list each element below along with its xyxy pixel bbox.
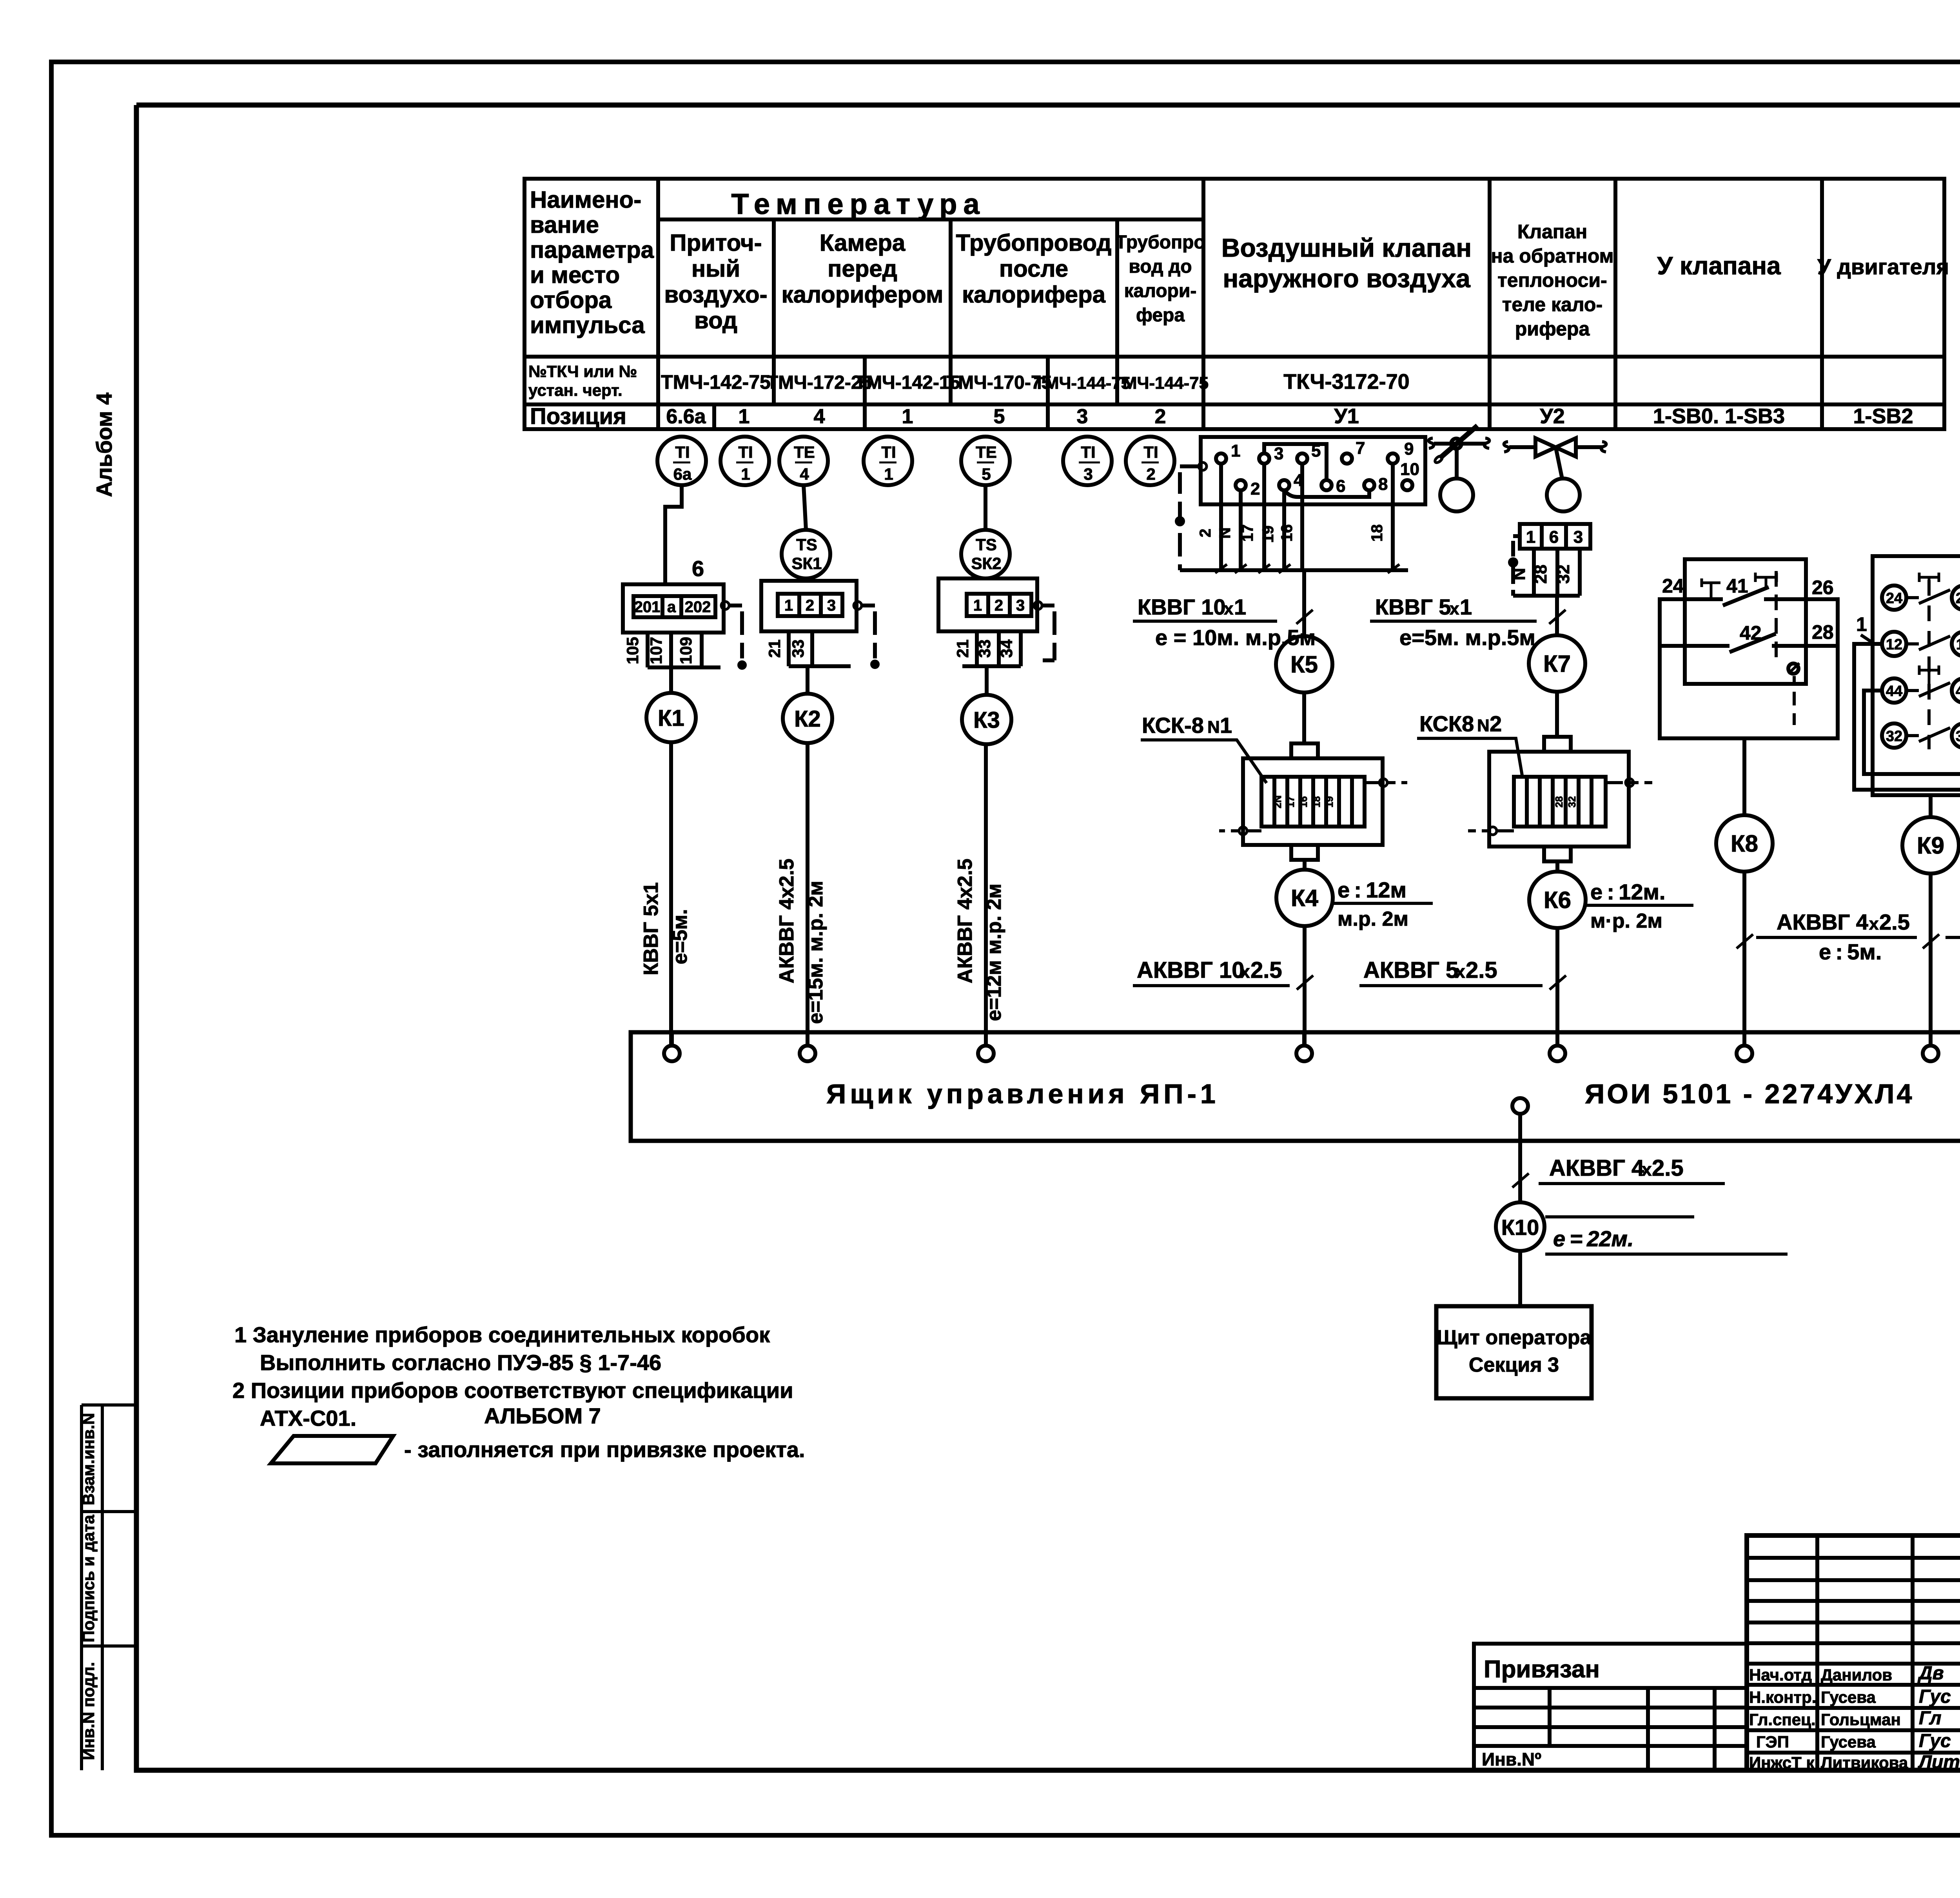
outer wiring loop [1660,599,1838,738]
svg-text:Трубопровод: Трубопровод [956,230,1112,256]
terminal pair 32-31 [1882,723,1906,748]
svg-text:21: 21 [953,640,972,658]
box 6 pin numbers 105 107 109 [623,637,695,664]
svg-text:1: 1 [884,465,893,483]
sensor TI-1b [864,437,912,485]
cable crossing tick [1296,610,1313,624]
svg-text:19: 19 [1323,796,1335,808]
svg-text:Гусева: Гусева [1821,1688,1876,1706]
svg-text:28: 28 [1812,621,1834,643]
cable tick K10 [1512,1173,1529,1187]
svg-text:КВВГ 10: КВВГ 10 [1138,595,1226,619]
box SK2 pin wires [962,631,1021,666]
svg-text:м·р. 2м: м·р. 2м [1590,910,1662,932]
wire K6 to YaP-1 [1555,928,1559,1046]
relay circle K9 [1902,817,1959,874]
internal wire pin4 to pin8 [1284,490,1369,497]
svg-text:2: 2 [1155,405,1166,428]
svg-text:ТМЧ-144-75: ТМЧ-144-75 [1112,373,1209,393]
svg-text:2.5: 2.5 [1652,1155,1684,1181]
svg-text:Взам.инв.N: Взам.инв.N [79,1413,98,1505]
svg-text:ТI: ТI [738,443,753,461]
svg-text:Гус: Гус [1919,1731,1951,1751]
svg-text:е=5м. м.р.5м: е=5м. м.р.5м [1399,625,1535,650]
box SK1 pin numbers 21 33 [765,640,807,658]
svg-text:3: 3 [1573,528,1583,547]
svg-text:3: 3 [1274,444,1283,463]
svg-text:Гусева: Гусева [1821,1733,1876,1751]
box 6 shield circle and dashes [721,602,729,609]
KSK-8n1 shield top right [1365,781,1407,784]
KSK8n2 shield bottom left [1468,829,1514,832]
svg-text:У клапана: У клапана [1657,252,1781,280]
svg-text:6а: 6а [673,465,692,483]
cable crossing tick [1549,610,1566,624]
svg-text:х: х [1642,1159,1652,1180]
YaP-1 box outline [631,1032,1960,1141]
table grid [524,179,1944,429]
wire to K9 [1929,795,1933,817]
wire bus to K1 [669,667,673,693]
svg-text:ТS: ТS [976,535,997,554]
sensor TI-2 [1126,437,1174,485]
pin strips below [1534,549,1580,596]
svg-text:32: 32 [1554,565,1573,584]
svg-text:АКВВГ 4: АКВВГ 4 [1549,1155,1644,1181]
svg-text:КВВГ 5: КВВГ 5 [1375,595,1451,619]
svg-text:К7: К7 [1543,651,1571,677]
svg-text:8: 8 [1378,475,1388,494]
svg-text:х: х [1224,599,1234,618]
svg-text:фера: фера [1136,305,1185,326]
relay circle K1 [646,693,696,742]
svg-text:и место: и место [530,262,620,288]
wire to K3 [985,666,989,695]
svg-text:Лит: Лит [1918,1752,1960,1773]
wire stubs from pins down [1221,464,1393,568]
svg-text:16: 16 [1298,796,1309,808]
svg-text:калори-: калори- [1124,281,1197,301]
svg-text:К3: К3 [973,707,1000,733]
svg-text:SК2: SК2 [971,554,1001,573]
svg-text:Литвикова: Литвикова [1821,1753,1908,1772]
svg-text:АКВВГ 4х2.5: АКВВГ 4х2.5 [954,859,976,983]
box SK2 cells 1 2 3 [967,594,1031,616]
box SK2 cell labels [973,597,1025,614]
svg-text:У двигателя: У двигателя [1817,254,1949,279]
damper valve symbol [1429,426,1490,511]
contact 42 [1685,634,1806,652]
svg-text:1: 1 [784,597,793,614]
svg-text:наружного воздуха: наружного воздуха [1223,264,1471,293]
svg-text:Приточ-: Приточ- [670,230,762,256]
svg-text:У2: У2 [1540,404,1565,428]
svg-text:1: 1 [1856,613,1867,635]
relay circle K3 [962,695,1011,744]
svg-text:4: 4 [814,405,825,428]
svg-text:Щит оператора: Щит оператора [1437,1326,1592,1349]
svg-text:№ТКЧ или №: №ТКЧ или № [528,362,637,381]
svg-text:Трубопро: Трубопро [1115,232,1205,253]
svg-text:е : 5м.: е : 5м. [1819,939,1882,964]
svg-text:7: 7 [1356,439,1365,458]
pin circles bottom row 2 4 6 8 10 [1236,480,1246,490]
svg-text:вание: вание [530,212,599,238]
svg-text:23: 23 [1956,590,1960,607]
svg-text:2: 2 [1250,479,1260,499]
svg-text:1: 1 [1231,441,1240,460]
svg-text:Температура: Температура [731,188,985,220]
operator panel box [1436,1306,1592,1398]
svg-text:К4: К4 [1291,885,1319,911]
svg-text:У1: У1 [1334,404,1359,428]
wire KSK8n2 to K6 [1555,861,1559,872]
svg-text:Секция 3: Секция 3 [1469,1354,1559,1376]
junction box 6 outline [623,584,724,633]
sensor TI-6a [657,437,706,485]
subdividers tkch row [865,357,1048,404]
svg-text:Привязан: Привязан [1484,1656,1600,1683]
svg-text:41: 41 [1726,575,1748,597]
signature squiggles [1917,1663,1960,1773]
pin number labels top [1231,439,1419,499]
switch box pin labels [1662,575,1834,644]
cable tick [1297,975,1313,990]
terminal stubs and circles on top edge [672,1032,1931,1046]
svg-text:х: х [1455,961,1465,982]
main cable down from bus [1302,570,1306,636]
svg-text:44: 44 [1886,683,1902,700]
KSK-8n1 shield bottom left [1219,829,1261,832]
svg-text:2: 2 [1490,711,1502,736]
svg-text:5: 5 [982,465,991,483]
main cable down to K7 [1555,596,1559,635]
svg-text:К9: К9 [1917,832,1944,859]
svg-text:КСК-8: КСК-8 [1142,713,1204,738]
box 6 terminal cells 201 a 202 [633,596,715,617]
svg-text:105: 105 [623,637,642,664]
svg-text:ЯОИ 5101 - 2274УХЛ4: ЯОИ 5101 - 2274УХЛ4 [1585,1079,1914,1109]
svg-text:3: 3 [1016,597,1025,614]
svg-text:АЛЬБОМ 7: АЛЬБОМ 7 [484,1403,601,1428]
svg-text:5: 5 [1311,441,1321,460]
KSK-8n1 strip numbers [1272,795,1335,808]
box 163 cell labels [1526,528,1583,547]
wire K9 to YaP-1 [1929,874,1933,1046]
KSK8n2 strip numbers [1553,796,1578,808]
svg-text:31: 31 [1956,728,1960,745]
privyazan box outline [1474,1644,1747,1770]
junction box SK2 outline [938,578,1037,631]
svg-text:ТМЧ-142-75: ТМЧ-142-75 [661,371,771,393]
svg-text:26: 26 [1812,576,1834,598]
svg-text:N: N [1477,716,1490,735]
terminal box U1 outline [1201,437,1425,504]
sensor TE-4 [779,437,828,485]
svg-text:Альбом 4: Альбом 4 [92,393,116,497]
K10 length label e=22m [1545,1215,1694,1218]
box SK2 shield [1034,602,1042,609]
svg-text:ТКЧ-3172-70: ТКЧ-3172-70 [1283,370,1409,393]
svg-text:1: 1 [1234,595,1246,619]
gathering bus [1180,568,1408,572]
svg-text:Наимено-: Наимено- [530,187,641,213]
svg-text:10: 10 [1400,460,1419,479]
wire to K8 [1742,738,1746,815]
svg-text:2: 2 [995,597,1003,614]
svg-text:К1: К1 [658,705,684,731]
wire K2 to YaP-1 terminal [806,743,809,1046]
svg-text:Позиция: Позиция [530,404,626,429]
svg-text:е : 12м.: е : 12м. [1590,879,1666,904]
junction box SK1 outline [761,581,857,631]
svg-text:Гольцман: Гольцман [1821,1710,1901,1729]
svg-text:21: 21 [765,640,784,658]
svg-text:33: 33 [975,640,994,658]
svg-text:Гл.спец.: Гл.спец. [1749,1710,1816,1729]
contact 41 [1685,587,1806,605]
wire K10 terminal down through box [1518,1114,1522,1202]
svg-text:АКВВГ 5: АКВВГ 5 [1363,957,1458,983]
connector KSK-8n1 [1291,743,1318,758]
box 163 pin numbers N 28 32 [1510,565,1573,584]
KSK8n2 shield top right [1606,781,1652,784]
sensor TS SK2 [961,530,1010,578]
wire K7 to KSK8n2 [1555,692,1559,737]
inner wiring loop 3 [1864,684,1960,774]
svg-text:ТЕ: ТЕ [794,443,815,461]
svg-text:ТЕ: ТЕ [976,443,997,461]
svg-text:4: 4 [800,465,809,483]
svg-text:17: 17 [1239,524,1256,542]
svg-text:устан. черт.: устан. черт. [528,381,622,399]
mech link dashed [1927,580,1931,749]
svg-text:Камера: Камера [820,230,906,256]
svg-text:е : 12м: е : 12м [1338,877,1406,902]
svg-text:К10: К10 [1501,1215,1539,1240]
svg-text:1: 1 [1526,528,1535,547]
terminal pair 12-11 [1882,632,1906,656]
svg-text:воздухо-: воздухо- [664,281,767,308]
leader corner for wire 1 [1861,635,1875,644]
svg-text:АКВВГ 4: АКВВГ 4 [1777,910,1868,934]
svg-text:5: 5 [994,405,1005,428]
svg-text:на обратном: на обратном [1491,245,1613,267]
relay circle K2 [783,694,832,743]
wire KSK-8n1 to K4 [1303,860,1307,870]
svg-text:1: 1 [902,405,913,428]
svg-text:107: 107 [647,637,665,664]
svg-text:ный: ный [691,256,740,282]
left signature sub-table columns [1817,1535,1960,1770]
svg-text:ТI: ТI [675,443,690,461]
svg-text:11: 11 [1956,636,1960,653]
svg-text:202: 202 [685,598,711,616]
box 163 outline [1520,524,1590,549]
svg-text:Инв.Nº: Инв.Nº [1482,1749,1541,1769]
internal wire pin3 to pin6 [1264,444,1327,480]
svg-text:17: 17 [1285,796,1296,808]
svg-text:параметра: параметра [530,237,654,263]
svg-text:2.5: 2.5 [1250,957,1282,983]
pin circles top row 1 3 5 7 9 [1216,453,1226,464]
svg-text:43: 43 [1956,683,1960,700]
signature rows labels [1749,1666,1908,1772]
svg-text:Выполнить согласно ПУЭ-85 § 1-: Выполнить согласно ПУЭ-85 § 1-7-46 [260,1350,661,1375]
wire numbers under box [1197,524,1386,543]
sensor TE-5 [961,437,1010,485]
svg-text:КВВГ 5х1: КВВГ 5х1 [640,882,662,975]
box SK2 pin numbers 21 33 34 [953,639,1016,658]
wire K10 to operator panel [1518,1251,1522,1306]
svg-text:К5: К5 [1290,651,1318,678]
box SK1 pin wires [789,631,851,666]
svg-text:109: 109 [677,637,695,664]
shield dash-dot left [1513,536,1520,596]
svg-text:24: 24 [1662,575,1684,597]
relay circle K10 [1496,1202,1544,1251]
switch box outline [1685,559,1806,684]
svg-text:1-SВ0. 1-SВ3: 1-SВ0. 1-SВ3 [1653,404,1785,428]
svg-text:32: 32 [1566,796,1578,808]
relay circle K5 [1276,636,1332,692]
svg-text:Гус: Гус [1919,1686,1951,1707]
svg-text:ИнжсТ к: ИнжсТ к [1749,1753,1815,1772]
svg-text:N: N [1510,568,1529,580]
svg-text:28: 28 [1531,565,1550,584]
relay circle K8 [1716,815,1773,872]
svg-text:Данилов: Данилов [1821,1666,1892,1684]
svg-text:1: 1 [739,405,750,428]
wire K1 to YaP-1 terminal [669,742,673,1046]
box SK1 cells 1 2 3 [778,594,842,616]
svg-text:после: после [999,256,1068,282]
svg-text:е=12м м.р. 2м: е=12м м.р. 2м [983,884,1005,1021]
fill-in parallelogram [271,1436,393,1463]
svg-text:16: 16 [1278,524,1296,542]
svg-text:3: 3 [1077,405,1088,428]
svg-text:Ящик управления ЯП-1: Ящик управления ЯП-1 [826,1079,1220,1109]
terminal pair 44-43 [1882,678,1906,703]
svg-text:- заполняется при привязке пр: - заполняется при привязке проекта. [404,1437,805,1462]
signature sub-table rows [1747,1558,1960,1753]
svg-text:калорифера: калорифера [962,281,1106,308]
svg-text:N: N [1216,528,1234,539]
svg-text:теле кало-: теле кало- [1502,294,1602,315]
svg-text:ТI: ТI [1081,443,1095,461]
svg-text:19: 19 [1259,526,1277,543]
svg-text:теплоноси-: теплоноси- [1497,269,1607,291]
connector KSK8n2 [1544,737,1571,752]
svg-text:калорифером: калорифером [782,281,944,308]
svg-text:вод: вод [694,307,737,334]
svg-text:201: 201 [634,598,661,616]
svg-text:е=15м. м.р. 2м: е=15м. м.р. 2м [804,881,827,1024]
svg-text:SК1: SК1 [791,554,822,573]
cable tick [1737,934,1753,948]
svg-text:АТХ-С01.: АТХ-С01. [260,1406,356,1430]
outer wiring loop 1-2 [1854,635,1960,790]
svg-text:6: 6 [1336,477,1345,496]
svg-text:42: 42 [1740,622,1762,644]
relay circle K4 [1276,870,1333,926]
wire to K2 [806,666,809,694]
svg-text:1: 1 [741,465,750,483]
gathering bus [1513,594,1580,598]
shield wire left with dash-dot [1180,466,1201,570]
svg-text:2: 2 [1197,529,1214,537]
svg-text:33: 33 [789,640,807,658]
svg-text:Н.контр.: Н.контр. [1749,1688,1816,1706]
svg-text:1: 1 [1460,595,1472,619]
svg-text:2N: 2N [1272,795,1283,808]
relay circle K6 [1529,872,1586,928]
svg-text:6.6а: 6.6а [666,405,706,428]
svg-text:перед: перед [828,256,897,282]
terminal pair 24-23 [1882,586,1906,610]
svg-text:К6: К6 [1544,887,1571,913]
svg-text:рифера: рифера [1515,318,1590,340]
svg-text:вод до: вод до [1129,256,1192,277]
svg-text:ТI: ТI [1143,443,1158,461]
motor box terminal numbers [1886,590,1960,745]
svg-text:отбора: отбора [530,287,612,313]
svg-text:Инв.N подл.: Инв.N подл. [79,1662,98,1760]
svg-text:ТI: ТI [881,443,896,461]
svg-text:2: 2 [806,597,814,614]
svg-text:1: 1 [1220,713,1232,738]
svg-text:м.р. 2м: м.р. 2м [1338,908,1408,930]
svg-text:32: 32 [1886,728,1902,745]
svg-text:Нач.отд: Нач.отд [1749,1666,1812,1684]
svg-text:1: 1 [973,597,982,614]
svg-text:3: 3 [1083,465,1093,483]
mech link dashed [1775,571,1778,657]
wire K4 to YaP-1 [1303,926,1307,1046]
svg-text:N: N [1207,718,1220,737]
svg-text:Дв: Дв [1917,1663,1944,1684]
K10 terminal circle inside box [1512,1098,1528,1114]
subdividers position row [714,404,1048,429]
svg-text:2: 2 [1146,465,1155,483]
svg-text:9: 9 [1404,439,1414,459]
svg-text:Воздушный клапан: Воздушный клапан [1221,233,1472,262]
cable tick [1550,975,1566,990]
svg-text:1 Зануление приборов соединит: 1 Зануление приборов соединительных коро… [234,1322,770,1347]
svg-text:импульса: импульса [530,312,645,338]
svg-text:28: 28 [1553,796,1565,808]
valve actuator stem and head [1556,448,1562,479]
svg-text:К2: К2 [794,706,821,732]
svg-text:2 Позиции приборов соответст: 2 Позиции приборов соответствуют специфи… [232,1378,793,1403]
gate valve symbol [1504,438,1606,511]
svg-text:2.5: 2.5 [1879,910,1910,934]
sensor TI-1 [720,437,769,485]
svg-text:х: х [1450,599,1459,618]
motor box outline [1873,556,1960,795]
box SK1 cell labels [784,597,836,614]
svg-text:К8: К8 [1731,830,1758,857]
svg-text:ТМЧ-142-15: ТМЧ-142-15 [855,372,960,393]
wire K5 to KSK-8n1 [1302,692,1306,743]
motor box wire labels 1 2 3 [1856,613,1960,689]
svg-text:е=5м.: е=5м. [669,909,691,964]
left margin stack boxes [82,1405,135,1770]
box SK1 shield [854,602,862,609]
svg-text:х: х [1240,961,1250,982]
svg-text:КСК8: КСК8 [1419,711,1474,736]
svg-text:12: 12 [1886,636,1902,653]
